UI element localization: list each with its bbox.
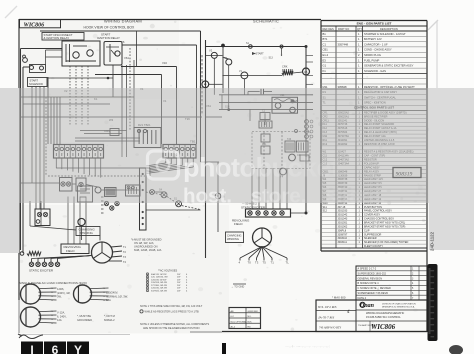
svg-text:SOLENOID - GAS: SOLENOID - GAS xyxy=(364,69,386,73)
svg-text:BLK: BLK xyxy=(248,321,253,323)
svg-text:SUPERSEDED 7-56 REVD: SUPERSEDED 7-56 REVD xyxy=(358,292,389,295)
svg-text:6: 6 xyxy=(52,343,59,354)
svg-text:3308787: 3308787 xyxy=(338,233,348,236)
svg-text:GENERATOR & STATIC EXCITER ASS: GENERATOR & STATIC EXCITER ASSY xyxy=(364,64,414,68)
svg-text:photobucket: photobucket xyxy=(183,153,340,183)
svg-text:V2: V2 xyxy=(209,49,213,53)
svg-text:QTY: QTY xyxy=(357,27,363,31)
svg-text:W/L 1N·2 R/S: W/L 1N·2 R/S xyxy=(318,305,337,309)
svg-text:3031062: 3031062 xyxy=(338,225,348,228)
svg-text:DESCRIPTION: DESCRIPTION xyxy=(380,27,398,31)
svg-text:WIRING DIAGRAM/SCHEMATIC: WIRING DIAGRAM/SCHEMATIC xyxy=(366,311,404,315)
svg-text:DIVISION OF ONAN CORPORATION: DIVISION OF ONAN CORPORATION xyxy=(382,303,416,306)
svg-text:SCHEMATIC: SCHEMATIC xyxy=(253,18,279,23)
svg-text:15.0JB-515R/ 51C CONTROL: 15.0JB-515R/ 51C CONTROL xyxy=(366,315,401,319)
svg-text:STARTER & SOLENOID - 12VOLT: STARTER & SOLENOID - 12VOLT xyxy=(364,32,406,36)
svg-text:K1: K1 xyxy=(323,69,327,73)
svg-text:C1: C1 xyxy=(323,42,327,46)
svg-text:SUPPRESSOR: SUPPRESSOR xyxy=(364,233,382,236)
svg-text:Y: Y xyxy=(74,343,82,354)
svg-text:BRACKET-START ASSY MTG (TOP): BRACKET-START ASSY MTG (TOP) xyxy=(364,225,405,228)
svg-text:Onan: Onan xyxy=(360,303,375,309)
svg-text:S13: S13 xyxy=(269,57,274,60)
svg-text:3031042: 3031042 xyxy=(338,214,348,217)
svg-text:CLIP: CLIP xyxy=(364,229,370,232)
svg-text:SUPERSEDED 1983-252: SUPERSEDED 1983-252 xyxy=(358,273,387,276)
svg-text:S12: S12 xyxy=(323,210,328,213)
svg-text:BT1: BT1 xyxy=(323,37,328,41)
svg-text:PART NO: PART NO xyxy=(338,27,349,31)
svg-text:E1-2: E1-2 xyxy=(323,53,329,57)
svg-text:G1: G1 xyxy=(323,64,327,68)
svg-text:3031051: 3031051 xyxy=(338,221,348,224)
svg-text:T3: T3 xyxy=(255,261,259,265)
svg-text:CRK: CRK xyxy=(282,65,288,69)
svg-text:SPARK PLUG: SPARK PLUG xyxy=(364,53,381,57)
svg-text:740 AMP W/O BTY: 740 AMP W/O BTY xyxy=(319,327,341,330)
svg-text:CHASSIS-CONTROL BOX: CHASSIS-CONTROL BOX xyxy=(364,218,394,221)
svg-text:→ TO GND: → TO GND xyxy=(231,285,244,289)
svg-text:COVER ASSY: COVER ASSY xyxy=(364,214,380,217)
svg-text:CHARGING: CHARGING xyxy=(227,233,241,237)
svg-text:.....,,..|.. ...~..,..,,.··,.: .....,,..|.. ...~..,..,,.··,.. ...,.,..·… xyxy=(285,344,330,348)
svg-text:3031043: 3031043 xyxy=(338,218,348,221)
svg-text:* MAX 600: * MAX 600 xyxy=(332,296,346,300)
svg-text:SILENCER: SILENCER xyxy=(364,237,377,240)
svg-text:B1: B1 xyxy=(323,32,327,36)
svg-text:RD: RD xyxy=(248,327,252,329)
svg-text:SILENCER (3 OF INCLUDED) *NO: SILENCER (3 OF INCLUDED) *NOTED xyxy=(364,241,409,244)
svg-text:START: START xyxy=(256,52,265,56)
svg-text:3057448: 3057448 xyxy=(338,42,349,46)
svg-text:T5: T5 xyxy=(263,261,267,265)
svg-text:BRACKET-START ASSY MTG (CR1): BRACKET-START ASSY MTG (CR1) xyxy=(364,221,405,224)
svg-text:FIELD: FIELD xyxy=(234,222,243,226)
svg-text:WIC806: WIC806 xyxy=(371,323,396,331)
svg-text:CB1: CB1 xyxy=(323,48,329,52)
svg-text:C NODES NOTE △ REVISED: C NODES NOTE △ REVISED xyxy=(358,287,392,290)
svg-text:BATTERY 12V: BATTERY 12V xyxy=(364,37,382,41)
svg-text:REF DES: REF DES xyxy=(323,27,335,31)
svg-text:GRN/ RED: GRN/ RED xyxy=(248,311,259,313)
svg-text:CB: CB xyxy=(304,71,308,74)
svg-text:JA-76·7 R/S: JA-76·7 R/S xyxy=(318,316,334,320)
svg-text:T0: T0 xyxy=(248,261,252,265)
svg-text:host. store. share.: host. store. share. xyxy=(183,185,386,208)
svg-text:ENG - GEN PARTS LIST: ENG - GEN PARTS LIST xyxy=(357,22,392,26)
svg-text:3031033: 3031033 xyxy=(338,210,348,213)
svg-text:306PL8: 306PL8 xyxy=(338,229,347,232)
svg-text:COND - CHOKE ASSY: COND - CHOKE ASSY xyxy=(364,48,392,52)
svg-text:A SPEED 2-17-2: A SPEED 2-17-2 xyxy=(358,268,377,271)
svg-text:NO.: NO. xyxy=(248,316,252,318)
svg-text:T1: T1 xyxy=(271,261,275,265)
svg-text:CAPACITOR - 1 UF: CAPACITOR - 1 UF xyxy=(364,42,388,46)
svg-text:B NODES NOTE 4: B NODES NOTE 4 xyxy=(358,282,380,285)
svg-text:3003110: 3003110 xyxy=(338,237,348,240)
svg-text:AL-2: AL-2 xyxy=(231,326,236,329)
svg-text:DATE 4: DATE 4 xyxy=(358,297,367,300)
svg-text:FUEL PUMP: FUEL PUMP xyxy=(364,58,379,62)
svg-text:3003111: 3003111 xyxy=(338,241,348,244)
svg-text:24D-1122: 24D-1122 xyxy=(430,231,435,251)
svg-text:W-3, OPTIONAL: W-3, OPTIONAL xyxy=(231,320,248,323)
svg-text:TL: TL xyxy=(286,261,290,265)
svg-text:GENERAL REVISION: GENERAL REVISION xyxy=(358,277,383,280)
svg-text:MINNEAPOLIS, MINNESOTA U.S.A.: MINNEAPOLIS, MINNESOTA U.S.A. xyxy=(382,306,415,309)
svg-text:E3: E3 xyxy=(323,58,327,62)
svg-text:I: I xyxy=(30,343,33,354)
